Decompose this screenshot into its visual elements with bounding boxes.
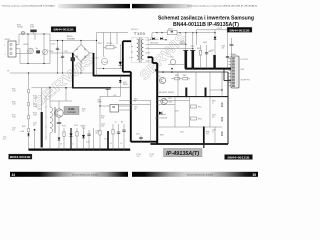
svg-text:R104: R104: [33, 112, 37, 114]
wire CN101 pin3: [16, 52, 28, 54]
resistor R912 pair: [191, 105, 197, 108]
svg-text:LF101: LF101: [23, 44, 28, 46]
op-amp IC101 TOPSwitch symbol: [55, 109, 63, 117]
svg-text:R803: R803: [197, 48, 201, 50]
label BN44-00111B bottom-right page: [225, 155, 253, 160]
wire inner verticals upper: [177, 72, 179, 97]
wire B+ thick from bridge: [90, 52, 94, 54]
wire inner vertical x215 low: [214, 127, 216, 144]
varistor on minus rail: [71, 58, 75, 62]
svg-text:C9: C9: [60, 144, 62, 146]
capacitor C114 drop: [112, 124, 114, 150]
wire to CN800 top: [231, 38, 233, 56]
diode D104: [70, 128, 72, 150]
svg-text:10n: 10n: [212, 117, 215, 119]
page footer right gradient bar: [132, 172, 258, 177]
resistor R109 drop: [76, 128, 78, 150]
svg-text:13.5V P75: 13.5V P75: [241, 59, 249, 61]
diode D811: [157, 114, 166, 116]
wire secondary ground thick vertical: [156, 63, 158, 144]
wire bridge minus thick: [72, 53, 74, 88]
svg-text:35: 35: [252, 173, 256, 177]
thermistor TH101: [42, 49, 47, 54]
connector CN800 pin stubs: [228, 57, 231, 59]
svg-text:R911: R911: [134, 99, 138, 101]
wire top AC bus: [19, 33, 50, 35]
svg-text:C117: C117: [82, 126, 86, 128]
svg-text:R913: R913: [198, 119, 202, 121]
svg-text:R8: R8: [121, 122, 123, 124]
svg-text:C813: C813: [191, 46, 195, 48]
transformer T101 body: [132, 38, 149, 63]
svg-text:R120: R120: [82, 109, 86, 111]
page footer left gradient bar: [10, 172, 128, 177]
capacitor C110 drop: [88, 130, 90, 150]
svg-text:C103: C103: [12, 127, 16, 129]
capacitor C813 electrolytic: [192, 51, 195, 69]
capacitor C821 bar: [185, 88, 187, 97]
svg-text:Q802: Q802: [169, 102, 173, 104]
svg-text:T3.15A: T3.15A: [17, 26, 23, 29]
svg-text:MOSFET DRIVE: MOSFET DRIVE: [159, 92, 174, 94]
diode D810 on top edge: [155, 69, 158, 72]
svg-text:IP-49135A(T): IP-49135A(T): [166, 151, 199, 157]
capacitor C822 bar: [205, 88, 207, 97]
page header right gradient bar: [132, 4, 192, 8]
svg-text:C5: C5: [115, 122, 117, 124]
node bus junctions: [41, 149, 42, 150]
svg-text:R108: R108: [62, 126, 66, 128]
svg-text:47n: 47n: [33, 124, 36, 126]
svg-text:Schemat zasilacza i inwertera: Schemat zasilacza i inwertera BN44-00111…: [2, 5, 55, 8]
svg-text:L801: L801: [170, 57, 174, 59]
svg-text:D3SBA60: D3SBA60: [67, 37, 75, 40]
svg-text:D811 1N4148: D811 1N4148: [155, 118, 167, 120]
watermark SERWIS word 2: [137, 30, 190, 83]
wire bottom AC bus: [20, 63, 50, 65]
svg-text:Serwis Elektroniki 4/2008: Serwis Elektroniki 4/2008: [72, 173, 98, 176]
wire inverter box right: [227, 72, 229, 144]
svg-text:1n: 1n: [73, 144, 75, 146]
wire inverter box bottom: [151, 143, 229, 145]
wire secondary top bus: [152, 32, 215, 34]
wire inverter inner bus: [157, 96, 228, 98]
wire bridge bottom: [80, 62, 82, 74]
svg-text:PC102: PC102: [150, 154, 155, 156]
svg-text:ON/OFF P75: ON/OFF P75: [241, 80, 250, 82]
svg-text:R111: R111: [96, 131, 100, 133]
watermark SERWIS word 1: [29, 51, 97, 111]
svg-text:2.7k: 2.7k: [137, 156, 140, 158]
wire drop 93.5: [93, 128, 95, 150]
resistor R803: [200, 45, 202, 69]
capacitor C818: [227, 30, 229, 69]
transistor Q802: [161, 98, 167, 104]
wire thick drop 108: [107, 131, 109, 150]
svg-text:R830: R830: [206, 132, 210, 134]
diode D101: [119, 44, 121, 69]
diode D803: [150, 39, 159, 41]
diode D105: [83, 128, 85, 150]
resistor R108 drop: [63, 128, 65, 150]
wire secondary mid: [150, 43, 186, 45]
resistor R806: [175, 77, 180, 80]
svg-text:PC101: PC101: [137, 154, 142, 156]
svg-text:SRV2014: SRV2014: [131, 29, 138, 31]
svg-text:3: 3: [129, 58, 130, 60]
svg-text:D104: D104: [74, 125, 78, 127]
svg-text:SB560: SB560: [168, 29, 173, 31]
svg-text:C818: C818: [222, 46, 226, 48]
wire B+ rail thick: [94, 75, 131, 77]
svg-text:2.2: 2.2: [110, 143, 112, 145]
capacitor C812 electrolytic: [185, 51, 188, 69]
wire snubber bottom: [97, 68, 123, 70]
wire inverter box top: [157, 71, 228, 73]
wire primary return rail thick: [73, 87, 111, 89]
svg-text:IC801: IC801: [157, 76, 161, 78]
capacitor C107 bulk: [41, 88, 43, 112]
wire inner verticals lower: [189, 97, 191, 127]
diode D106: [27, 134, 29, 136]
diode D802 boxed: [168, 30, 178, 34]
capacitor C916 on spine link: [140, 136, 142, 142]
svg-text:Schemat zasilacza i inwertera: Schemat zasilacza i inwertera Samsung: [158, 16, 254, 22]
svg-text:C106: C106: [33, 122, 37, 124]
heatsink line: [45, 95, 47, 140]
svg-text:P6KE: P6KE: [98, 101, 102, 103]
svg-text:1k: 1k: [121, 143, 123, 145]
wire thick drop inverter: [203, 127, 205, 144]
svg-text:R102: R102: [33, 95, 37, 97]
svg-text:BN44-00111B: BN44-00111B: [230, 28, 250, 32]
svg-text:C110: C110: [86, 142, 90, 144]
label BN44-00111B top-right page: [227, 27, 252, 32]
resistor R118 drop: [34, 129, 36, 131]
svg-text:R912: R912: [198, 107, 202, 109]
wire inner vertical x210 low: [209, 97, 211, 127]
svg-text:R117: R117: [12, 114, 16, 116]
svg-text:34: 34: [12, 173, 16, 177]
svg-text:R112: R112: [101, 116, 105, 118]
wire 13V rail: [197, 29, 228, 31]
resistor chain left marks: [28, 90, 30, 93]
wire primary thick bottom: [123, 71, 131, 73]
svg-text:FR106: FR106: [123, 84, 128, 86]
svg-text:C812: C812: [180, 41, 184, 43]
wire inner line y90: [210, 89, 222, 91]
svg-text:BN44-00111B: BN44-00111B: [54, 28, 74, 32]
label BN44-00111B bottom-left page: [9, 154, 33, 159]
svg-text:Schemat zasilacza i inwertera: Schemat zasilacza i inwertera BN44-00111…: [187, 5, 257, 8]
svg-text:C104: C104: [51, 44, 55, 46]
wire snubber bus top: [97, 32, 129, 34]
svg-text:2.2k: 2.2k: [206, 134, 209, 136]
wire return rail: [10, 72, 94, 74]
label IP-49135A(T): [164, 149, 203, 157]
svg-text:R105: R105: [98, 43, 102, 45]
svg-text:100n: 100n: [101, 126, 105, 128]
svg-text:1n: 1n: [212, 132, 214, 134]
svg-text:2W 100k: 2W 100k: [107, 43, 113, 45]
svg-text:T902: T902: [168, 98, 172, 100]
svg-text:0.22J: 0.22J: [30, 27, 34, 29]
svg-text:47k: 47k: [96, 133, 99, 135]
svg-text:C831: C831: [175, 111, 179, 113]
svg-text:C823: C823: [212, 115, 216, 117]
svg-text:47k: 47k: [82, 111, 85, 113]
svg-text:TH101: TH101: [49, 51, 54, 53]
capacitor C115 drop: [118, 124, 120, 150]
wire secondary output thick bus: [185, 68, 231, 70]
wire AC verticals: [27, 34, 29, 64]
capacitor C817 electrolytic small: [213, 55, 216, 69]
transformer T102 primary coil: [49, 88, 51, 107]
wire drop 100: [99, 97, 101, 150]
diode D806: [214, 30, 216, 41]
svg-text:4.7k: 4.7k: [101, 118, 104, 120]
svg-text:C916: C916: [136, 134, 140, 136]
capacitor C109 bypass: [57, 121, 61, 123]
svg-text:Z101: Z101: [98, 99, 102, 101]
svg-text:T101: T101: [134, 32, 147, 36]
wire inverter box left thin: [150, 100, 152, 144]
diode D107: [58, 138, 61, 141]
label BN44-00111B top-left page: [51, 27, 76, 33]
svg-text:1k: 1k: [212, 103, 214, 105]
svg-text:4.7n: 4.7n: [12, 129, 15, 131]
svg-text:BN44-00111B: BN44-00111B: [10, 155, 31, 159]
svg-text:25V: 25V: [222, 48, 225, 50]
wire primary thick top: [123, 40, 131, 42]
wire feedback right page: [157, 100, 189, 102]
svg-text:TOP246Y: TOP246Y: [67, 112, 76, 114]
wire bridge top: [80, 41, 82, 45]
varistor VA101: [36, 51, 39, 54]
wire primary box left: [28, 73, 30, 150]
svg-text:+13,5V: +13,5V: [217, 28, 223, 30]
svg-text:2n2: 2n2: [3, 139, 6, 141]
svg-text:10n: 10n: [134, 109, 137, 111]
svg-text:D806: D806: [203, 42, 207, 44]
transformer T101 pins left: [131, 46, 133, 48]
node inverter bus junctions: [177, 96, 178, 97]
opto-coupler PC101: [110, 105, 119, 113]
wire spine thick horizontal: [131, 141, 157, 143]
wire spine thick vertical: [130, 72, 132, 142]
ground bus left page thick: [29, 148, 131, 150]
svg-text:CN101: CN101: [5, 39, 10, 41]
svg-text:470p: 470p: [82, 128, 86, 130]
wire feedback cross-page 1: [119, 100, 151, 102]
svg-text:R6: R6: [105, 139, 107, 141]
connector CN101: [8, 41, 16, 57]
svg-text:C105: C105: [64, 51, 68, 53]
svg-text:BN44-00111B: BN44-00111B: [228, 156, 250, 160]
wire secondary mid2: [150, 48, 193, 50]
page header left gradient bar: [58, 4, 130, 8]
svg-text:R807: R807: [183, 75, 187, 77]
capacitor C816: [206, 45, 208, 69]
svg-text:R821: R821: [212, 101, 216, 103]
svg-text:L101: L101: [95, 58, 99, 60]
label IC101: [64, 107, 79, 115]
resistor R807: [183, 77, 188, 80]
wire CN101 pin1: [16, 43, 19, 45]
wire primary box top: [32, 87, 73, 89]
svg-text:D106: D106: [21, 131, 25, 133]
svg-text:R118: R118: [22, 126, 26, 128]
svg-text:BN44-00111B IP-49135A(T): BN44-00111B IP-49135A(T): [173, 22, 239, 28]
wire snubber verticals: [96, 33, 98, 76]
svg-text:D102: D102: [123, 82, 127, 84]
wire inverter inner line: [157, 126, 222, 128]
svg-text:R116: R116: [12, 101, 16, 103]
wire below box stub: [203, 144, 205, 148]
resistor R114 drop: [123, 124, 125, 150]
svg-text:C817: C817: [211, 50, 215, 52]
capacitor C111 snub: [107, 88, 109, 97]
svg-text:C113: C113: [101, 124, 105, 126]
transistor Q801: [159, 77, 165, 83]
marks on right inner vertical: [221, 103, 223, 107]
wire T101 secondary thick step: [148, 56, 153, 58]
svg-text:R103: R103: [33, 104, 37, 106]
wire stub to CN800 pin: [224, 80, 231, 82]
svg-text:Serwis Elektroniki 4/2008: Serwis Elektroniki 4/2008: [187, 173, 213, 176]
svg-text:R115: R115: [12, 88, 16, 90]
svg-text:2.7k: 2.7k: [150, 156, 153, 158]
svg-text:C902: C902: [180, 132, 184, 134]
svg-text:2200/35: 2200/35: [180, 43, 186, 45]
wire CN101 pin2: [16, 48, 20, 50]
svg-text:C11x: C11x: [3, 137, 7, 139]
svg-text:C107: C107: [38, 109, 42, 111]
svg-text:R833: R833: [160, 135, 164, 137]
transformer T101 pins right: [146, 39, 151, 41]
diode D804: [160, 37, 163, 40]
wire primary thick left: [122, 41, 124, 72]
svg-text:IC101: IC101: [68, 109, 75, 111]
wire drain to rail: [65, 88, 67, 101]
node AC junctions: [27, 33, 28, 34]
wire feedback cross-page 2: [119, 104, 151, 106]
diode D102: [119, 76, 121, 97]
resistor R913 pair: [191, 117, 197, 120]
svg-text:2: 2: [129, 47, 130, 49]
svg-text:C911: C911: [134, 107, 138, 109]
wire AC to bridge: [50, 40, 97, 42]
